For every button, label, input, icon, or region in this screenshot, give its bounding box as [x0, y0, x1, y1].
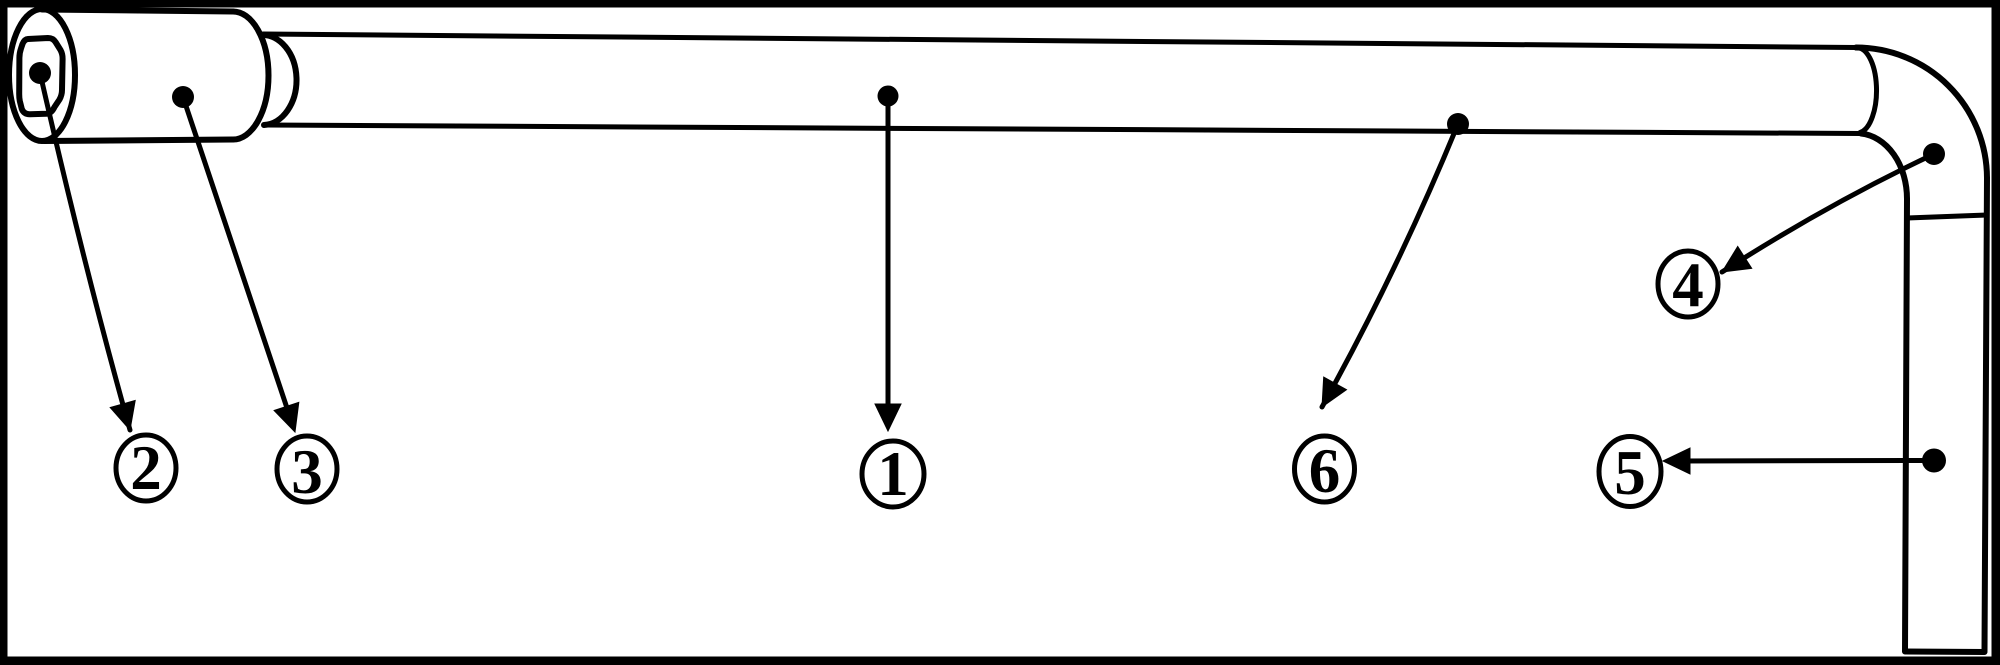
socket body top line	[42, 10, 233, 12]
collar arc	[261, 35, 297, 125]
svg-text:2: 2	[130, 433, 162, 503]
leader 4: dot on elbow	[1923, 143, 1945, 165]
leader 6: dot on shaft bottom line	[1447, 113, 1469, 135]
socket head: outer ellipse (left face)	[9, 9, 75, 141]
socket body bottom line	[44, 140, 233, 142]
leader 1: dot on shaft	[878, 86, 899, 107]
callout 4	[1658, 251, 1718, 317]
svg-text:6: 6	[1309, 436, 1341, 506]
leader 3: dot on socket body	[172, 86, 194, 108]
socket body right face arc	[233, 12, 269, 140]
leader lines	[29, 62, 1946, 474]
leader 2: dot on socket face	[29, 62, 51, 84]
shaft bottom line	[265, 125, 1861, 134]
elbow outer curve	[1856, 48, 1987, 179]
callout 2	[116, 435, 176, 501]
bend end section line	[1907, 215, 1987, 218]
elbow inner curve	[1861, 134, 1907, 200]
svg-text:5: 5	[1614, 438, 1646, 508]
leg bottom cap	[1905, 649, 1985, 656]
svg-text:4: 4	[1672, 250, 1704, 320]
callout 5	[1599, 437, 1661, 507]
leg left edge	[1905, 199, 1907, 651]
callout 3	[277, 436, 337, 502]
socket head: hexagonal hole	[19, 38, 62, 114]
callout 1	[862, 441, 924, 507]
bend section arc	[1856, 48, 1877, 133]
leg right edge	[1985, 178, 1988, 651]
svg-text:1: 1	[877, 439, 909, 509]
callout circles and numbers	[116, 251, 1718, 507]
callout 6	[1295, 436, 1355, 502]
svg-text:3: 3	[291, 437, 323, 507]
shaft top line	[263, 34, 1856, 48]
leader 5: dot on leg	[1922, 449, 1946, 473]
